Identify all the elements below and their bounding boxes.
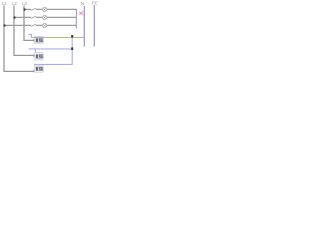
socket X2 xyxy=(33,53,43,60)
switch S2 xyxy=(31,16,36,18)
svg-text:N: N xyxy=(81,1,84,6)
N wire from socket X1 xyxy=(29,34,85,37)
wire L2 vertical xyxy=(14,6,34,56)
wire xyxy=(47,16,77,18)
N bus xyxy=(83,6,85,47)
lamp return bus xyxy=(75,9,77,29)
junction dot L2/row2 xyxy=(14,16,16,18)
wire xyxy=(36,24,42,26)
N wire from socket X2 xyxy=(29,48,73,50)
svg-text:PE: PE xyxy=(92,0,98,5)
wire xyxy=(47,8,77,10)
svg-text:L1: L1 xyxy=(2,1,7,6)
switch S1 xyxy=(31,8,36,10)
lamp E3 xyxy=(42,23,46,27)
switch S3 xyxy=(31,24,36,26)
svg-text:L2: L2 xyxy=(12,1,17,6)
junction dot L1/row3 xyxy=(4,24,6,26)
wire L3 vertical xyxy=(24,6,34,41)
junction dot N riser top xyxy=(71,35,73,38)
wire lamp row 2 xyxy=(14,16,31,18)
PE bus xyxy=(93,5,95,47)
svg-text:L3: L3 xyxy=(22,1,27,6)
socket X3 xyxy=(33,65,43,72)
junction dot N riser mid xyxy=(71,47,73,50)
wire lamp row 3 xyxy=(4,24,31,26)
N riser xyxy=(34,38,72,65)
wire xyxy=(47,24,77,26)
wire xyxy=(36,8,42,10)
junction dot L3/row1 xyxy=(24,8,26,10)
lamp E1 xyxy=(42,7,46,11)
lamp E2 xyxy=(42,15,46,19)
wire lamp row 1 xyxy=(24,8,31,10)
open-end marker (pink X) xyxy=(77,11,84,15)
socket X1 xyxy=(33,36,43,43)
wire xyxy=(36,16,42,18)
wire L1 vertical xyxy=(4,6,34,72)
N drop to socket X2 xyxy=(34,49,36,53)
